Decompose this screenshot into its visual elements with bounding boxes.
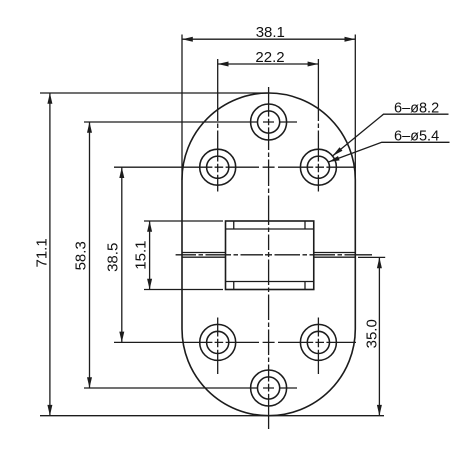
arrow 71.1 top xyxy=(47,93,52,104)
dimension line 22.2 xyxy=(218,63,319,65)
right holes column centerline lower segment xyxy=(317,318,319,375)
arrow 71.1 bottom xyxy=(47,405,52,416)
vertical center axis dash-dot xyxy=(268,87,270,429)
knuckle outer rectangle xyxy=(226,221,314,290)
lower holes row centerline / 38.5 extension xyxy=(114,341,356,343)
upper holes row centerline / 38.5 extension xyxy=(114,166,356,168)
svg-text:6–ø5.4: 6–ø5.4 xyxy=(394,128,439,144)
dimension line 58.3 xyxy=(89,122,91,388)
extension line knuckle top (15.1) xyxy=(144,220,223,222)
hole top-center outer circle xyxy=(251,104,287,140)
hole bottom-center inner circle xyxy=(258,377,280,399)
arrow 35.0 top xyxy=(377,257,382,268)
pin left bottom line xyxy=(182,256,226,258)
horizontal pin axis dash-dot xyxy=(176,254,372,256)
knuckle bottom-right tab tick xyxy=(304,282,306,290)
dimension line 38.1 xyxy=(182,38,355,40)
arrow 38.5 top xyxy=(119,167,124,178)
arrow 22.2 right xyxy=(308,62,319,67)
extension line plate left vertical (38.1) xyxy=(181,35,183,181)
svg-text:38.1: 38.1 xyxy=(256,24,285,41)
dimension line 38.5 xyxy=(121,167,123,342)
svg-text:15.1: 15.1 xyxy=(133,240,150,269)
svg-text:35.0: 35.0 xyxy=(363,319,380,348)
arrow 15.1 top xyxy=(147,221,152,232)
svg-text:6–ø8.2: 6–ø8.2 xyxy=(394,101,439,117)
arrow leader 5.4 xyxy=(329,156,340,162)
extension line plate top (71.1) xyxy=(40,92,268,94)
svg-text:71.1: 71.1 xyxy=(34,238,51,267)
right holes column centerline upper segment xyxy=(317,59,319,192)
hole upper-left outer circle xyxy=(200,149,236,185)
svg-text:38.5: 38.5 xyxy=(105,243,122,272)
knuckle inner top line xyxy=(226,228,314,230)
leader line 6-dia5.4 xyxy=(329,142,450,162)
hole top-center inner circle xyxy=(258,111,280,133)
extension line pin axis right (35.0) xyxy=(358,256,385,258)
svg-text:22.2: 22.2 xyxy=(255,49,284,66)
extension line knuckle bottom (15.1) xyxy=(144,289,223,291)
pin right bottom line xyxy=(314,256,356,258)
arrow 35.0 bottom xyxy=(377,405,382,416)
left holes column centerline lower segment xyxy=(217,318,219,375)
arrow 58.3 bottom xyxy=(87,377,92,388)
arrow 22.2 left xyxy=(218,62,229,67)
dimension line 35.0 xyxy=(378,257,380,415)
arrow 15.1 bottom xyxy=(147,279,152,290)
dimension line 71.1 xyxy=(49,93,51,416)
hole bottom-center outer circle xyxy=(251,370,287,406)
hole lower-left outer circle xyxy=(200,324,236,360)
left holes column centerline upper segment xyxy=(217,59,219,192)
hole lower-right outer circle xyxy=(300,324,336,360)
hole upper-left inner circle xyxy=(207,156,229,178)
arrow 58.3 top xyxy=(87,122,92,133)
extension line plate bottom (71.1 / 35.0) xyxy=(40,415,384,417)
bottom hole horizontal centerline / 58.3 extension xyxy=(84,387,297,389)
arrow 38.1 left xyxy=(182,37,193,42)
svg-text:58.3: 58.3 xyxy=(72,241,89,270)
pin left top line xyxy=(182,252,226,254)
hole upper-right inner circle xyxy=(307,156,329,178)
extension line plate right vertical (38.1) xyxy=(354,35,356,331)
hole lower-left inner circle xyxy=(207,331,229,353)
top hole horizontal centerline / 58.3 extension xyxy=(84,121,297,123)
arrow 38.1 right xyxy=(345,37,356,42)
knuckle top-right tab tick xyxy=(304,221,306,229)
knuckle top-left tab tick xyxy=(233,221,235,229)
arrow 38.5 bottom xyxy=(119,332,124,343)
knuckle bottom-left tab tick xyxy=(233,282,235,290)
knuckle inner bottom line xyxy=(226,281,314,283)
pin right top line xyxy=(314,252,356,254)
leader line 6-dia8.2 xyxy=(333,114,449,156)
hole upper-right outer circle xyxy=(300,149,336,185)
arrow leader 8.2 xyxy=(333,147,343,156)
hinge plate outline xyxy=(182,93,355,416)
dimension line 15.1 xyxy=(149,221,151,290)
hole lower-right inner circle xyxy=(307,331,329,353)
